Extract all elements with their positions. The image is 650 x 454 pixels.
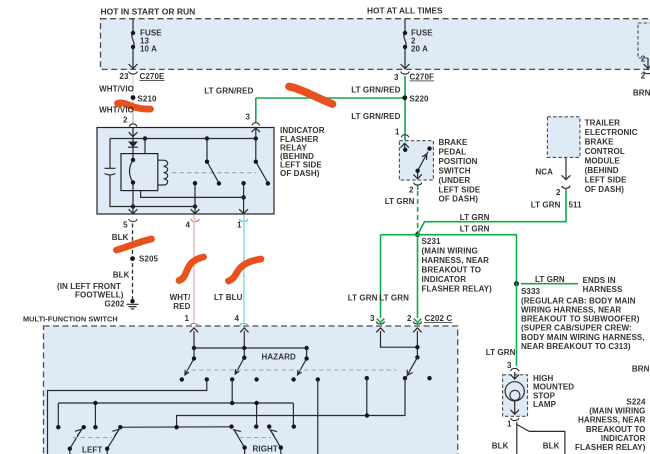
svg-text:LT GRN: LT GRN [460,224,490,233]
svg-text:(REGULAR CAB: BODY MAIN: (REGULAR CAB: BODY MAIN [521,296,636,305]
svg-text:3: 3 [370,314,375,323]
svg-text:2: 2 [407,314,412,323]
svg-text:WHT/VIO: WHT/VIO [99,85,134,94]
svg-text:HARNESS: HARNESS [583,285,623,294]
svg-text:LT GRN: LT GRN [486,348,516,357]
svg-text:LT GRN: LT GRN [535,275,565,284]
svg-text:WIRING HARNESS, NEAR: WIRING HARNESS, NEAR [521,306,621,315]
svg-text:G202: G202 [105,299,125,308]
svg-text:4: 4 [234,314,239,323]
svg-text:BRAKE: BRAKE [585,138,615,147]
svg-text:MODULE: MODULE [585,157,621,166]
svg-text:BODY MAIN WIRING HARNESS,: BODY MAIN WIRING HARNESS, [521,333,645,342]
svg-text:C270F: C270F [410,73,435,82]
svg-text:LT GRN: LT GRN [460,213,490,222]
svg-text:LT GRN/RED: LT GRN/RED [351,112,400,121]
svg-text:ENDS IN: ENDS IN [583,276,616,285]
svg-text:S231: S231 [422,237,442,246]
svg-text:(UNDER: (UNDER [439,176,471,185]
svg-text:FLASHER RELAY): FLASHER RELAY) [422,285,493,294]
svg-text:POSITION: POSITION [439,157,478,166]
svg-text:BRAKE: BRAKE [439,138,469,147]
svg-text:LT BLU: LT BLU [214,293,243,302]
svg-text:1: 1 [237,221,242,230]
svg-text:BLK: BLK [112,233,129,242]
svg-text:2: 2 [409,186,414,195]
svg-text:PEDAL: PEDAL [439,148,467,157]
svg-text:BREAKOUT TO: BREAKOUT TO [586,425,646,434]
svg-text:(SUPER CAB/SUPER CREW:: (SUPER CAB/SUPER CREW: [521,324,632,333]
svg-text:STOP: STOP [533,391,556,400]
svg-text:BRN: BRN [632,365,650,374]
svg-text:LT GRN: LT GRN [531,201,561,210]
svg-text:CONTROL: CONTROL [585,147,625,156]
svg-text:2: 2 [556,188,561,197]
svg-text:RED: RED [173,302,190,311]
svg-text:(BEHIND: (BEHIND [585,166,619,175]
svg-text:MULTI-FUNCTION SWITCH: MULTI-FUNCTION SWITCH [23,315,118,324]
svg-text:23: 23 [119,72,129,81]
svg-text:S224: S224 [626,398,646,407]
svg-text:LEFT SIDE: LEFT SIDE [439,185,481,194]
svg-text:FLASHER RELAY): FLASHER RELAY) [575,443,646,452]
svg-text:4: 4 [185,221,190,230]
svg-text:(MAIN WIRING: (MAIN WIRING [589,407,645,416]
svg-text:BLK: BLK [113,271,130,280]
svg-text:5: 5 [123,221,128,230]
svg-text:HAZARD: HAZARD [262,353,296,362]
svg-text:S333: S333 [521,287,541,296]
svg-text:C270E: C270E [140,72,166,81]
svg-text:OF DASH): OF DASH) [280,169,320,178]
svg-text:S205: S205 [139,255,159,264]
svg-text:3: 3 [507,361,512,370]
svg-text:C202 C: C202 C [425,314,453,323]
svg-text:(IN LEFT FRONT: (IN LEFT FRONT [57,282,121,291]
svg-text:BREAKOUT TO SUBWOOFER): BREAKOUT TO SUBWOOFER) [521,315,640,324]
svg-text:BREAKOUT TO: BREAKOUT TO [422,266,482,275]
svg-text:LT GRN/RED: LT GRN/RED [204,86,253,95]
svg-text:511: 511 [569,201,583,210]
svg-text:WHT/VIO: WHT/VIO [99,106,134,115]
svg-text:1: 1 [507,420,512,429]
svg-text:BLK: BLK [543,442,560,451]
svg-text:LT GRN: LT GRN [379,294,409,303]
svg-text:S220: S220 [410,95,430,104]
svg-text:S210: S210 [138,95,158,104]
svg-text:LT GRN: LT GRN [348,294,378,303]
svg-text:INDICATOR: INDICATOR [422,275,467,284]
svg-text:2: 2 [123,115,128,124]
svg-text:OF DASH): OF DASH) [439,195,479,204]
svg-text:SWITCH: SWITCH [439,166,471,175]
svg-text:1: 1 [395,128,400,137]
svg-text:3: 3 [394,73,399,82]
svg-text:HOT IN START OR RUN: HOT IN START OR RUN [101,6,196,16]
svg-text:2: 2 [641,55,646,64]
svg-text:NCA: NCA [535,168,553,177]
svg-text:LAMP: LAMP [533,400,557,409]
svg-text:LT GRN/RED: LT GRN/RED [351,85,400,94]
svg-text:20 A: 20 A [411,44,428,53]
svg-text:HIGH: HIGH [533,374,554,383]
svg-text:3: 3 [245,113,250,122]
svg-text:(MAIN WIRING: (MAIN WIRING [422,247,478,256]
svg-text:BLK: BLK [492,442,509,451]
svg-text:HARNESS, NEAR: HARNESS, NEAR [422,256,490,265]
svg-text:RIGHT: RIGHT [253,445,278,454]
svg-text:2: 2 [641,72,646,81]
svg-text:BRN: BRN [633,89,650,98]
svg-text:10 A: 10 A [140,44,157,53]
svg-text:FOOTWELL): FOOTWELL) [75,291,124,300]
svg-text:HOT AT ALL TIMES: HOT AT ALL TIMES [367,6,443,16]
svg-text:ELECTRONIC: ELECTRONIC [585,128,638,137]
svg-text:LEFT SIDE: LEFT SIDE [585,176,627,185]
svg-text:OF DASH): OF DASH) [585,185,625,194]
svg-text:NEAR BREAKOUT TO C313): NEAR BREAKOUT TO C313) [521,342,631,351]
svg-text:WHT/: WHT/ [170,293,192,302]
svg-text:1: 1 [184,314,189,323]
svg-text:LEFT: LEFT [82,445,102,454]
svg-text:HARNESS, NEAR: HARNESS, NEAR [578,416,646,425]
svg-text:LT GRN: LT GRN [385,197,415,206]
svg-text:MOUNTED: MOUNTED [533,383,574,392]
svg-text:TRAILER: TRAILER [585,119,620,128]
svg-text:INDICATOR: INDICATOR [601,434,646,443]
